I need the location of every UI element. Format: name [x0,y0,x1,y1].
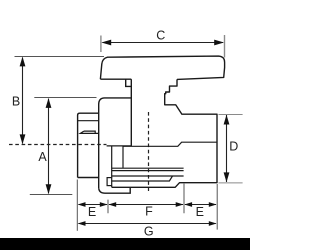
dimension C right arrowhead [214,40,224,46]
dimension D line [226,115,228,182]
end connector cap bottom edge [78,177,99,179]
dimension D up arrowhead [224,115,230,125]
dimension F arrowheads [108,202,116,207]
cap rib upper line [84,131,95,133]
bottom left extension line [76,180,78,231]
dimension B up arrowhead [20,57,26,67]
black footer bar [0,238,250,250]
dimension E left arrowheads [78,202,86,207]
bottom tick at E/F boundary [107,200,109,214]
dimension B top extension line [15,56,105,58]
dimension C extension tick left [100,36,102,53]
union nut top edge [99,98,132,105]
dimension A top extension line [34,97,96,99]
union nut left edge [98,105,100,189]
dimension D top extension line [219,114,243,116]
horizontal centerline (dashed) [9,144,107,146]
dimension C extension tick right [224,35,226,58]
dimension C left arrowhead [101,40,111,46]
pipe line 3 [112,175,184,177]
pipe line 1 [112,167,184,169]
pipe line 4 with chamfer [112,176,173,181]
dimension C line [103,42,224,44]
svg-text:A: A [38,150,47,164]
valve handle outline [100,56,224,79]
dimension B down arrowhead [20,134,26,144]
valve handle bottom-left edge [100,78,131,80]
bottom tick at F/E boundary [183,184,185,214]
dimension G line [79,223,216,225]
bottom right extension line [216,184,218,230]
stem left edge / nut right edge [130,79,132,146]
pipe end face vertical [111,146,113,177]
cap rib lower line with chamfer [80,131,98,133]
dimension B line [22,58,24,144]
svg-text:C: C [156,28,165,42]
dimension E right line [185,204,216,206]
dimension F line [109,204,183,206]
svg-text:B: B [12,94,20,108]
svg-text:E: E [88,205,96,219]
svg-text:F: F [145,205,153,219]
vertical centerline (dashed) [148,112,150,191]
dimension A up arrowhead [46,98,52,108]
body center line to socket inner edge [123,142,217,146]
end connector cap inner line [78,120,99,122]
stem right stepped profile and socket top [112,79,217,187]
svg-text:E: E [196,205,204,219]
dimension E left line [79,204,108,206]
dimension D bottom extension line [219,182,243,184]
handle lock tab notch [126,80,131,87]
dimension E right arrowheads [184,202,192,207]
socket depth vertical [122,146,124,168]
dimension A bottom extension line [30,194,73,196]
union nut inner bottom edge [107,145,132,147]
pipe end step box [107,178,112,186]
svg-text:G: G [144,224,154,238]
dimension A down arrowhead [46,184,52,194]
union nut bottom chamfer and bottom edge [99,187,131,193]
end connector cap outline [78,113,99,177]
svg-text:D: D [229,139,238,153]
dimension D down arrowhead [224,172,230,182]
dimension G arrowheads [78,221,86,226]
pipe end face lower vertical [111,186,113,188]
dimension A line [48,99,50,194]
pipe line 2 [112,170,184,172]
